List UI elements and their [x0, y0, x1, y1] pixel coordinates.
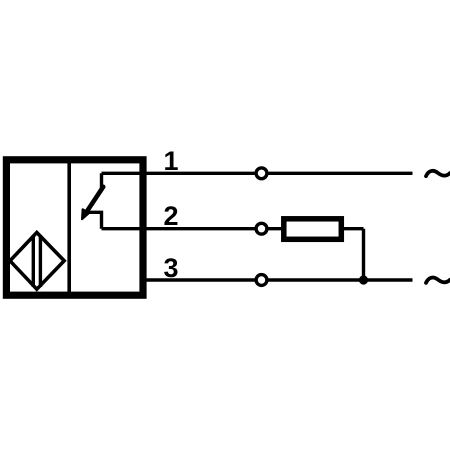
- junction dot: [359, 275, 368, 284]
- switch arrowhead: [82, 209, 89, 219]
- wire from resistor down to wire 3: [362, 229, 365, 280]
- AC tilde on wire 3: [426, 278, 450, 283]
- terminal circle pin 2: [256, 223, 267, 234]
- switch stub from wire 1: [100, 173, 103, 188]
- terminal circle pin 1: [256, 168, 267, 179]
- svg-text:2: 2: [163, 201, 178, 231]
- svg-text:3: 3: [163, 253, 178, 283]
- wire 1: [102, 172, 413, 175]
- svg-text:1: 1: [163, 146, 178, 176]
- rhombus inner bar right line: [39, 235, 42, 287]
- switch contact step: [88, 212, 102, 228]
- sensor body divider: [67, 160, 71, 296]
- sensor symbol rhombus: [10, 233, 64, 290]
- terminal circle pin 3: [256, 275, 267, 286]
- load resistor: [284, 219, 342, 240]
- AC tilde on wire 1: [426, 171, 450, 176]
- sensor body outline: [6, 160, 143, 295]
- rhombus inner bar left line: [32, 235, 35, 287]
- wire 2: [102, 227, 364, 230]
- switch arm: [88, 187, 104, 211]
- wire 3: [140, 278, 413, 281]
